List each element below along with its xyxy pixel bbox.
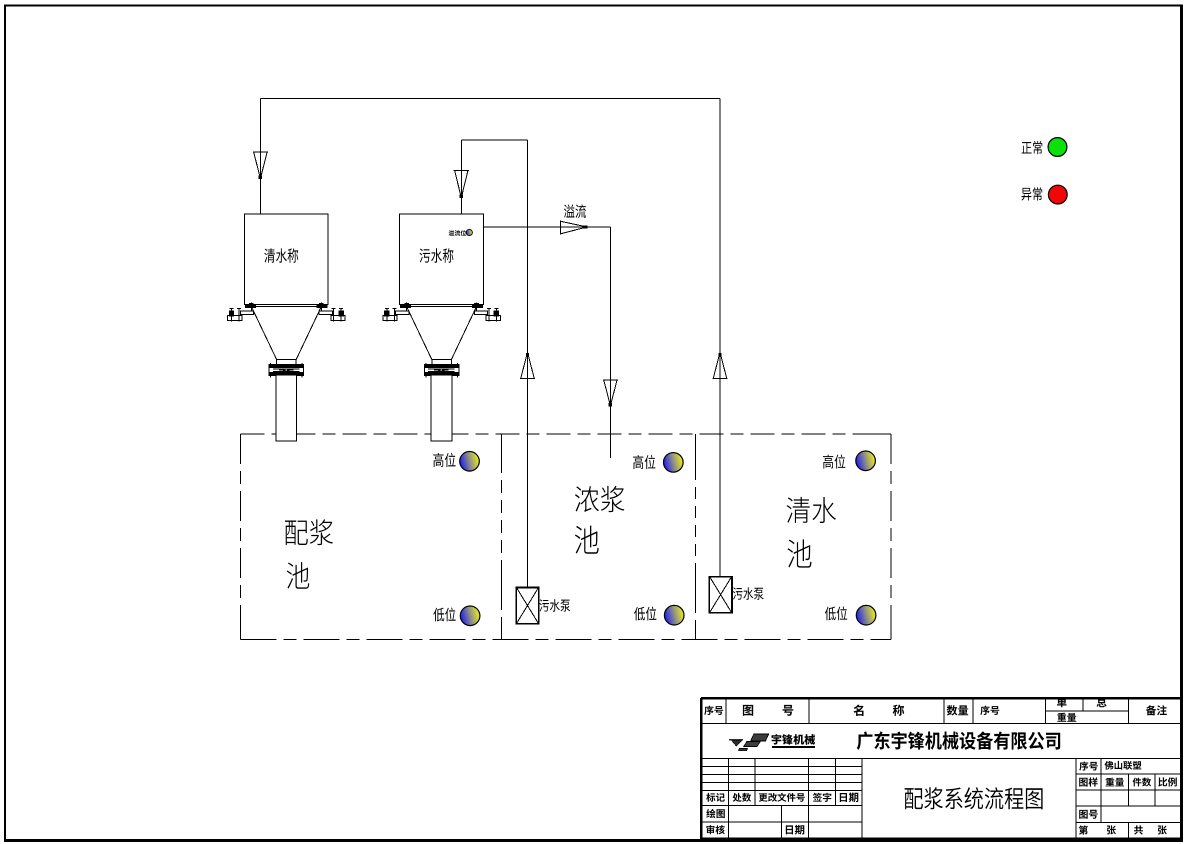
- tank label 配浆池 (mixing tank): [285, 519, 333, 545]
- tank block outer dashed wall (left): [239, 434, 241, 639]
- wire: riser from pump P1 in thick slurry tank: [527, 140, 529, 587]
- level indicator T2 low level (低位): [634, 607, 656, 621]
- weigh hopper U2 污水称 (waste water weigher): label: [420, 248, 454, 262]
- tank block outer dashed wall (right): [890, 434, 892, 639]
- pump P1 in thick slurry tank (box with X): [516, 588, 539, 624]
- drawing title 配浆系统流程图: [905, 787, 1043, 809]
- tank label 清水池 (clean water tank): [787, 497, 836, 523]
- weigh hopper U2 污水称 (waste water weigher): load cell mount: [383, 303, 411, 322]
- pump P1 in thick slurry tank label 污水泵: [539, 599, 570, 612]
- weigh hopper U1 清水称 (clean water weigher): drop pipe into tank: [276, 376, 297, 441]
- level indicator T2 high level (高位): [633, 455, 655, 469]
- company logo mark: [729, 739, 743, 741]
- tank block outer dashed wall (top): [240, 433, 890, 435]
- overflow level marker 溢流位 inside 污水称: [449, 230, 467, 236]
- weigh hopper U2 污水称 (waste water weigher): funnel: [403, 306, 481, 359]
- company name 广东宇锋机械设备有限公司: [857, 731, 1060, 749]
- level indicator T1 high level (高位): [433, 453, 455, 467]
- weigh hopper U1 清水称 (clean water weigher): flexible coupling flange: [269, 365, 304, 376]
- page border frame: [4, 5, 6, 841]
- wire: top header line from clean water pump: [260, 98, 720, 100]
- tank divider wall between mixing tank and thick-slurry tank: [500, 434, 502, 639]
- flow arrow down into 清水称: [253, 152, 268, 176]
- weigh hopper U2 污水称 (waste water weigher): drop pipe into tank: [431, 376, 452, 441]
- tank divider wall between thick-slurry tank and clean-water tank: [695, 434, 697, 639]
- flow arrow up from pump P1: [520, 355, 535, 378]
- level indicator T1 low level (低位): [433, 607, 455, 621]
- weigh hopper U2 污水称 (waste water weigher): discharge neck: [432, 360, 452, 366]
- weigh hopper U1 清水称 (clean water weigher): body box: [245, 214, 329, 305]
- weigh hopper U1 清水称 (clean water weigher): load cell mount: [228, 303, 256, 322]
- level indicator T3 high level (高位): [823, 454, 845, 468]
- weigh hopper U1 清水称 (clean water weigher): discharge neck: [277, 360, 297, 366]
- legend indicator normal (green lamp): [1048, 138, 1067, 157]
- weigh hopper U2 污水称 (waste water weigher): flexible coupling flange: [424, 365, 459, 376]
- pump P2 in clean water tank label 污水泵: [733, 587, 764, 600]
- legend indicator abnormal (red lamp): [1048, 185, 1067, 204]
- wire: riser from pump P2 in clean water tank: [719, 99, 721, 577]
- tank block outer dashed wall (bottom): [240, 638, 890, 640]
- weigh hopper U1 清水称 (clean water weigher): funnel: [248, 306, 326, 359]
- title block small texts: revision table: [706, 793, 725, 802]
- company logo text 宇锋机械: [772, 734, 816, 745]
- label 溢流 (overflow): [564, 204, 586, 218]
- legend label 正常 (normal): [1022, 141, 1043, 154]
- wire: overflow drop into thick slurry tank: [609, 227, 611, 458]
- wire: clean water fill drop line into 清水称: [259, 99, 261, 229]
- weigh hopper U1 清水称 (clean water weigher): load cell mount: [317, 303, 345, 322]
- title block right info cells: [1079, 762, 1098, 771]
- legend label 异常 (abnormal): [1022, 187, 1043, 200]
- level indicator T3 low level (低位): [825, 606, 847, 620]
- weigh hopper U2 污水称 (waste water weigher): body box: [400, 214, 484, 305]
- title block header texts row 1: [704, 706, 723, 715]
- weigh hopper U2 污水称 (waste water weigher): load cell mount: [472, 303, 500, 322]
- weigh hopper U1 清水称 (clean water weigher): label: [264, 248, 298, 262]
- tank wall corner caps: [240, 434, 890, 639]
- wire: overflow line from 污水称: [484, 226, 611, 228]
- wire: header line from slurry pump: [461, 139, 527, 141]
- wire: drop line into 污水称: [460, 140, 462, 230]
- flow arrow right (overflow 溢流): [561, 220, 584, 234]
- pump P2 in clean water tank (box with X): [709, 577, 732, 613]
- flow arrow down into 污水称: [454, 170, 469, 195]
- flow arrow up from pump P2: [712, 355, 727, 378]
- flow arrow down into 浓浆池 (overflow): [603, 380, 618, 403]
- title block grid: [701, 698, 1181, 840]
- tank label 浓浆池 (thick slurry tank): [575, 486, 625, 512]
